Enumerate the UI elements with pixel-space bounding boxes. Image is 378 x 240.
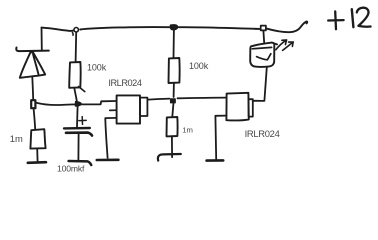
wire R2 bottom to node B bbox=[173, 83, 175, 97]
ground (capacitor) bbox=[69, 161, 92, 165]
wire top rail from corner above zener to +12 end bbox=[42, 22, 308, 33]
ground (M2 source) bbox=[207, 159, 224, 162]
resistor R2 100k body bbox=[169, 58, 180, 83]
ground (zener/1m leg) bbox=[28, 161, 46, 164]
svg-text:100mkf: 100mkf bbox=[57, 163, 85, 173]
wire M1 drain to node B rail bbox=[148, 99, 170, 100]
wire gate rail junction to M1 gate bbox=[82, 101, 117, 104]
node A / cap junction cross blob bbox=[75, 102, 81, 106]
ground (R4 leg, curled) bbox=[158, 154, 181, 161]
svg-text:1m: 1m bbox=[10, 133, 23, 144]
M1 gate pin stub bbox=[110, 109, 117, 111]
lamp HL1 body bbox=[250, 43, 277, 67]
wire R2 top from top rail bbox=[173, 30, 175, 58]
svg-text:IRLR024: IRLR024 bbox=[108, 78, 141, 88]
label +12 plus sign bbox=[328, 11, 343, 29]
wire lamp top from junction bbox=[262, 31, 265, 43]
wire R4 bottom to ground bbox=[171, 137, 173, 158]
resistor R3 1m body bbox=[30, 129, 45, 148]
resistor R1 bottom tick bbox=[79, 87, 85, 92]
wire zener anode down to node A bbox=[31, 77, 34, 100]
wire M2 drain up to lamp bbox=[253, 67, 267, 101]
wire cap bottom to ground bbox=[77, 134, 79, 160]
lamp arrow 2 bbox=[283, 42, 294, 51]
svg-text:IRLR024: IRLR024 bbox=[245, 128, 280, 139]
capacitor C1 plus sign bbox=[79, 117, 86, 125]
wire node A gate rail going right bbox=[36, 103, 76, 105]
lamp inner chord bbox=[252, 47, 271, 48]
junction square top rail / lamp bbox=[261, 26, 266, 31]
label +12 digit 1 bbox=[352, 9, 354, 27]
lamp inner zigzag bbox=[257, 54, 271, 60]
ground (M1 source) bbox=[97, 159, 119, 162]
wire M1 source to ground bbox=[105, 118, 116, 158]
capacitor C1 bottom plate bbox=[66, 133, 92, 136]
junction blob top rail / R2 bbox=[170, 25, 178, 30]
svg-text:1m: 1m bbox=[182, 126, 193, 135]
svg-text:100k: 100k bbox=[87, 63, 107, 73]
wire node B down to resistor 1m R4 bbox=[172, 103, 173, 117]
zener diode D1 cathode bar bbox=[16, 48, 49, 52]
wire tick below ring junction bbox=[71, 32, 74, 35]
wire 100k R1 top: from top-rail ring down bbox=[75, 33, 78, 62]
junction ring on top rail (node +12 / R1) bbox=[74, 28, 78, 32]
resistor R4 1m body bbox=[167, 117, 178, 136]
transistor M2 right tab bbox=[249, 99, 253, 116]
label +12 digit 2 bbox=[357, 8, 371, 27]
zener diode D1 triangle bbox=[20, 52, 45, 78]
capacitor C1 top plate bbox=[64, 127, 90, 130]
transistor M2 body bbox=[226, 93, 248, 121]
wire M2 source to ground bbox=[215, 116, 226, 160]
resistor R1 100k body bbox=[69, 62, 80, 88]
wire cap top: junction down to + plate bbox=[76, 106, 79, 126]
transistor M1 right tab bbox=[140, 98, 147, 116]
node A junction blob (left) bbox=[31, 100, 35, 108]
wire R3 to ground bbox=[36, 149, 38, 162]
node B junction blob bbox=[171, 99, 176, 103]
transistor M1 body bbox=[117, 95, 140, 123]
wire node B rail to M2 gate bbox=[178, 97, 227, 100]
wire R1 bottom to node A rail bbox=[74, 88, 77, 101]
wire node A down to resistor 1m R3 bbox=[34, 109, 36, 130]
lamp arrow 1 bbox=[276, 40, 287, 50]
wire drop from top rail to zener cathode bbox=[41, 28, 43, 50]
svg-text:100k: 100k bbox=[189, 61, 209, 71]
